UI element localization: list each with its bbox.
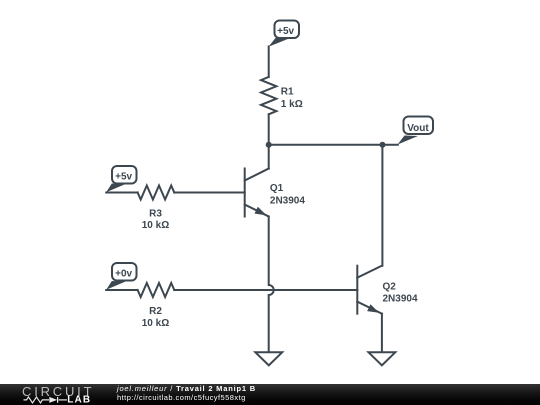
wire Q1 emitter down with hop over R2 wire xyxy=(269,217,274,352)
wire node A to node B (horizontal) xyxy=(269,144,383,146)
wire node A to Q1 collector xyxy=(268,145,270,169)
ground (right) xyxy=(369,352,396,365)
node B junction dot xyxy=(380,142,386,148)
svg-text:Vout: Vout xyxy=(407,123,429,134)
svg-text:+5v: +5v xyxy=(277,26,294,37)
flag +5v (top) xyxy=(269,21,300,47)
wire node B to Vout tail xyxy=(383,144,398,146)
svg-text:1 kΩ: 1 kΩ xyxy=(281,99,303,110)
wire R3 to Q1 base xyxy=(174,192,244,194)
flag Vout xyxy=(398,117,433,145)
svg-text:Q1: Q1 xyxy=(270,183,284,194)
wire R2 to Q2 base xyxy=(174,289,357,291)
resistor R2 xyxy=(138,283,175,297)
flag +5v (left) xyxy=(106,166,136,192)
CircuitLab logo xyxy=(0,384,100,405)
credit text xyxy=(117,384,256,402)
label R3 value xyxy=(142,208,169,231)
flag +0v xyxy=(106,263,136,290)
wire Q2 emitter to ground xyxy=(381,314,383,352)
label R2 value xyxy=(142,306,169,329)
svg-text:R2: R2 xyxy=(149,306,162,317)
svg-text:10 kΩ: 10 kΩ xyxy=(142,318,169,329)
svg-text:10 kΩ: 10 kΩ xyxy=(142,220,169,231)
svg-text:Q2: Q2 xyxy=(383,282,397,293)
svg-text:2N3904: 2N3904 xyxy=(270,195,305,206)
label R1 value xyxy=(281,87,303,110)
resistor R3 xyxy=(138,186,175,200)
wire from +0v flag to R2 xyxy=(106,289,137,291)
node A junction dot xyxy=(266,142,272,148)
svg-text:R3: R3 xyxy=(149,208,162,219)
resistor R1 xyxy=(261,77,276,114)
wire R1 bottom to node A xyxy=(268,114,270,144)
ground (left) xyxy=(255,352,282,365)
wire from +5v left flag to R3 xyxy=(106,192,137,194)
svg-text:R1: R1 xyxy=(281,87,294,98)
transistor Q2 xyxy=(357,266,382,314)
wire from +5v flag to R1 top xyxy=(268,47,270,77)
wire node B down to Q2 collector xyxy=(381,145,383,266)
transistor Q1 xyxy=(245,169,269,217)
svg-text:LAB: LAB xyxy=(67,395,91,405)
footer bar xyxy=(0,384,540,405)
svg-text:+5v: +5v xyxy=(115,171,132,182)
label Q2 value xyxy=(383,282,418,305)
label Q1 value xyxy=(270,183,305,207)
svg-text:2N3904: 2N3904 xyxy=(383,294,418,305)
svg-text:+0v: +0v xyxy=(115,268,132,279)
